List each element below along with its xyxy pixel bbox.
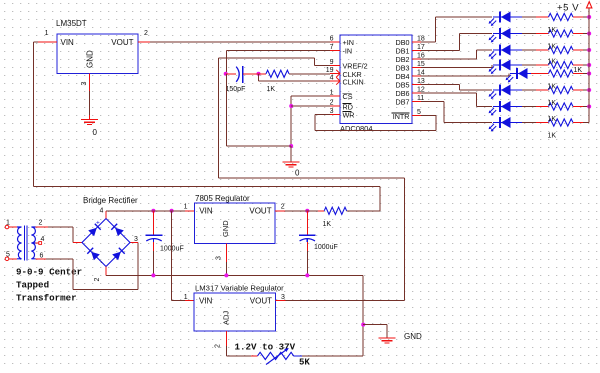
wire cap1 bottom lead [152, 242, 154, 251]
wire stub ADC left pin [330, 105, 340, 107]
LED D5 [506, 68, 531, 83]
center tap end square [39, 242, 42, 245]
wire to 1K [347, 210, 381, 212]
wire -IN down to cap node [226, 51, 228, 74]
wire to +5V rail [583, 16, 589, 18]
svg-text:3: 3 [134, 236, 138, 243]
junction +5V rail [587, 88, 591, 92]
svg-text:VOUT: VOUT [249, 206, 271, 215]
wire stub ADC right pin [412, 75, 421, 77]
svg-text:1000uF: 1000uF [314, 244, 338, 251]
resistor 1K (row 5) [549, 70, 574, 77]
svg-text:9-0-9 Center: 9-0-9 Center [16, 267, 82, 278]
wire VREF/2 riser [313, 58, 315, 65]
wire DB1 riser [458, 34, 460, 51]
svg-text:3: 3 [330, 108, 334, 115]
wire DB0 horizontal [421, 41, 435, 43]
wire stub ADC pin6 [330, 41, 340, 43]
wire CS [291, 95, 330, 97]
svg-text:3: 3 [216, 256, 223, 260]
svg-text:17: 17 [417, 44, 425, 51]
wire LED6 to resistor [522, 89, 536, 91]
svg-text:0: 0 [295, 169, 300, 178]
wire stub ADC right pin [412, 115, 421, 117]
svg-text:0: 0 [93, 128, 98, 137]
svg-text:1: 1 [184, 294, 188, 301]
svg-text:1: 1 [45, 30, 49, 37]
wire DB6 to LED [476, 106, 492, 108]
svg-text:1K: 1K [267, 86, 276, 93]
wire LM35 GND down [89, 91, 91, 115]
wire cap node down [226, 74, 228, 146]
svg-text:2: 2 [144, 30, 148, 37]
wire vertical +V net [33, 42, 35, 187]
svg-text:DB7: DB7 [396, 98, 410, 107]
transformer T? 9-0-9 primary terminal 1 circle [5, 225, 9, 229]
transformer left winding [17, 227, 22, 259]
LED D4 [489, 60, 522, 75]
junction 5V node [305, 209, 309, 213]
svg-text:6: 6 [330, 36, 334, 43]
svg-text:1K: 1K [548, 59, 557, 66]
wire 0V riser bottom [362, 325, 364, 356]
wire to +5V rail [583, 122, 589, 124]
svg-text:': ' [101, 261, 102, 268]
wire to +5V rail [583, 89, 589, 91]
svg-text:1K: 1K [323, 221, 332, 228]
wire stub resistor [536, 64, 549, 66]
wire stub LM317 VIN [185, 299, 194, 301]
wire cap2 bottom lead [306, 242, 308, 251]
wire stub bridge right [130, 242, 138, 244]
resistor 1K (row 4) [549, 61, 574, 68]
wire DB3 to LED [491, 64, 493, 66]
wire +5V rail [588, 9, 590, 123]
LED D7 [489, 101, 522, 116]
power symbol +5 V [587, 2, 592, 8]
svg-text:13: 13 [417, 78, 425, 85]
wire DB4 horizontal [421, 75, 509, 77]
wire ADJ down [225, 346, 227, 356]
wire 5K right lead [294, 355, 302, 357]
svg-text:1K: 1K [548, 84, 557, 91]
ground GND [379, 338, 396, 343]
wire LM35 VOUT to ADC +IN [150, 41, 330, 43]
svg-text:15: 15 [417, 61, 425, 68]
svg-text:1K: 1K [548, 100, 557, 107]
wire stub xfmr pin5 [9, 258, 17, 260]
resistor 1K (row 3) [549, 46, 574, 53]
wire stub ADC left pin [330, 50, 340, 52]
wire DB5 to LED [459, 89, 492, 91]
svg-text:3: 3 [81, 82, 88, 86]
wire DB5 horizontal [421, 84, 459, 86]
svg-text:Tapped: Tapped [16, 280, 49, 291]
junction GND node [361, 323, 365, 327]
wire stub ADC left pin [330, 80, 340, 82]
svg-text:4: 4 [41, 236, 45, 243]
wire 0V rail [106, 274, 363, 276]
wire +V long horizontal [34, 186, 381, 188]
wire LED1 to resistor [522, 16, 536, 18]
svg-text:7805 Regulator: 7805 Regulator [195, 194, 250, 203]
resistor 1K (row 2) [549, 30, 574, 37]
wire DB5 riser [458, 85, 460, 91]
junction +5V rail [587, 63, 591, 67]
wire stub resistor right [573, 64, 583, 66]
svg-text:1K: 1K [548, 116, 557, 123]
wire 0V riser top [362, 275, 364, 324]
wire stub 7805 VOUT [275, 210, 285, 212]
wire stub bridge top [105, 211, 107, 219]
wire stub ADC left pin [330, 113, 340, 115]
wire stub ADC left pin [330, 95, 340, 97]
regulator U? 7805 box [194, 203, 275, 244]
wire junction to 1K [252, 73, 266, 75]
temperature sensor U? LM35DT box [57, 34, 138, 74]
wire cap to junction [243, 73, 252, 75]
junction cap1 top [151, 209, 155, 213]
wire to LM317 [172, 299, 185, 301]
wire WR riser [314, 114, 316, 130]
wire 7805 GND to 0V [225, 262, 227, 275]
wire DB7 riser [443, 102, 445, 123]
wire to +5V rail [583, 106, 589, 108]
diode D? bridge top-left [88, 224, 101, 237]
wire DB4 to LED [508, 73, 510, 75]
svg-text:1K: 1K [548, 44, 557, 51]
wire LED3 to resistor [522, 49, 536, 51]
wire LED7 to resistor [522, 106, 536, 108]
junction ground net [289, 144, 293, 148]
resistor 1K (LM35 supply) [324, 207, 346, 214]
wire stub LM35 pin2 [138, 41, 150, 43]
LED D2 [489, 28, 522, 43]
wire stub xfmr pin2 [36, 226, 49, 228]
transformer core [24, 226, 26, 261]
capacitor 1000uF (filter) [146, 235, 163, 242]
wire AC2 riser to bridge right [137, 243, 139, 290]
svg-text:6: 6 [40, 253, 44, 260]
svg-text:11: 11 [417, 95, 424, 102]
wire LED8 to resistor [522, 122, 536, 124]
capacitor 150pF [236, 66, 243, 83]
resistor 1K (clock) [266, 70, 289, 77]
svg-text:16: 16 [417, 53, 425, 60]
junction clock cap node [224, 72, 228, 76]
wire stub resistor right [573, 16, 583, 18]
junction +5V rail [587, 48, 591, 52]
ADC U? ADC0804 box [340, 35, 412, 124]
wire stub resistor [536, 122, 549, 124]
junction +5V rail [587, 15, 591, 19]
wire stub resistor right [573, 122, 583, 124]
wire 1K to CLKR [289, 73, 330, 75]
wire stub xfmr pin1 [9, 226, 17, 228]
resistor 1K (row 1) [549, 13, 574, 20]
svg-text:2: 2 [39, 219, 43, 226]
wire VREF/2 [314, 65, 330, 67]
wire stub resistor right [573, 33, 583, 35]
wire DB2 horizontal [421, 58, 476, 60]
wire ADC -IN [227, 50, 330, 52]
svg-text:VIN: VIN [61, 38, 75, 47]
svg-text:18: 18 [417, 36, 425, 43]
wire xfmr pin6 [46, 258, 73, 260]
LED D1 [489, 12, 522, 27]
svg-text:GND: GND [404, 332, 422, 341]
potentiometer wiper arrow [266, 349, 288, 365]
svg-text:VIN: VIN [199, 206, 213, 215]
wire stub LM35 pin3 [89, 74, 91, 92]
wire stub ADC right pin [412, 50, 421, 52]
svg-text:+5 V: +5 V [557, 3, 579, 14]
wire DB0 to LED [435, 16, 492, 18]
wire cap2 to 0V rail [306, 251, 308, 275]
junction RD [289, 104, 293, 108]
wire stub resistor [536, 49, 549, 51]
junction +5V rail [587, 72, 591, 76]
wire LM35 VIN left [34, 41, 38, 43]
svg-text:CLKIN: CLKIN [343, 78, 364, 87]
wire 7805 VOUT [285, 210, 301, 212]
potentiometer 5K [258, 352, 294, 359]
wire DB4 riser [508, 74, 510, 77]
wire stub resistor [536, 33, 549, 35]
wire CLKIN riser [258, 74, 260, 81]
wire LED4 to resistor [522, 64, 536, 66]
svg-text:1: 1 [6, 219, 10, 226]
wire DB6 horizontal [421, 92, 476, 94]
wire stub ADC right pin [412, 101, 421, 103]
ground 0 (LM35) [81, 120, 98, 125]
diode D? bridge bottom-right [112, 248, 125, 260]
LED D8 [489, 117, 522, 132]
wire stub ADC left pin [330, 65, 340, 67]
wire stub 7805 VIN [185, 210, 194, 212]
wire stub xfmr pin6 [36, 258, 47, 260]
wire WR to INTR [315, 130, 436, 132]
wire stub resistor right [573, 73, 583, 75]
wire to +5V rail [583, 49, 589, 51]
wire to 150pF [226, 73, 236, 75]
bridge rectifier diamond [82, 219, 130, 267]
wire DC+ rail [146, 210, 166, 212]
wire to +5V rail [583, 64, 589, 66]
wire stub resistor right [573, 89, 583, 91]
resistor 1K (row 7) [549, 103, 574, 110]
wire DB2 to LED [476, 49, 492, 51]
wire ground horizontal [227, 145, 292, 147]
wire stub 7805 GND [225, 244, 227, 262]
wire DC+ rail to 7805 [166, 210, 185, 212]
LED D3 [489, 45, 522, 60]
wire stub resistor [531, 73, 549, 75]
wire DB2 riser [475, 50, 477, 59]
wire INTR riser [435, 116, 437, 131]
svg-text:2: 2 [94, 278, 101, 282]
svg-text:4: 4 [330, 75, 334, 82]
wire CLKIN [259, 80, 331, 82]
LED D6 [489, 85, 522, 100]
junction cap2 bottom [305, 273, 309, 277]
svg-text:ADC0804: ADC0804 [340, 124, 373, 133]
svg-text:1: 1 [184, 204, 188, 211]
svg-text:7: 7 [330, 44, 334, 51]
wire stub LM317 ADJ [225, 331, 227, 346]
wire DC+ to LM317 VIN [171, 211, 173, 300]
wire cap1 to 0V rail [152, 251, 154, 275]
svg-text:2: 2 [215, 344, 222, 348]
regulator U? LM317 box [194, 293, 276, 331]
wire VREF/2 horizontal [219, 57, 315, 59]
wire AC2 vertical [72, 259, 74, 290]
svg-text:GND: GND [221, 220, 230, 237]
svg-text:Bridge Rectifier: Bridge Rectifier [83, 196, 138, 205]
wire stub ADC left pin [330, 73, 340, 75]
svg-text:GND: GND [86, 50, 95, 68]
wire CS/RD vertical [290, 96, 292, 146]
wire VREF/2 long horizontal [219, 177, 405, 179]
svg-text:1K: 1K [548, 27, 557, 34]
svg-text:LM317 Variable Regulator: LM317 Variable Regulator [195, 284, 284, 293]
wire DC+ rail [106, 210, 146, 212]
wire DB7 to LED [444, 122, 492, 124]
wire stub 1K left [318, 210, 324, 212]
wire DB7 horizontal [421, 101, 444, 103]
capacitor 1000uF (output) [299, 235, 316, 242]
junction cap1 bottom [151, 273, 155, 277]
wire stub resistor right [573, 106, 583, 108]
wire stub LM35 pin1 [38, 41, 57, 43]
junction LM317 feed [170, 209, 174, 213]
wire stub resistor [536, 106, 549, 108]
wire RD [291, 105, 330, 107]
wire to ground symbol [290, 146, 292, 162]
svg-text:150pF: 150pF [226, 86, 246, 93]
junction 7805 GND [224, 273, 228, 277]
svg-text:5: 5 [6, 251, 10, 258]
ground 0 (ADC) [283, 162, 300, 167]
wire cap2 top lead [306, 211, 308, 235]
clock pin caret pin4 [336, 77, 340, 84]
wire to GND symbol [363, 324, 387, 326]
wire DB3 horizontal [421, 67, 492, 69]
wire stub resistor [536, 16, 549, 18]
wire to LM317 VOUT [286, 299, 405, 301]
svg-text:19: 19 [326, 67, 334, 74]
wire AC1 vertical [72, 227, 74, 243]
svg-text:1K: 1K [548, 133, 557, 140]
svg-text:ADJ: ADJ [222, 311, 231, 325]
wire VREF/2 vertical down [218, 58, 220, 178]
wire stub bridge bottom [105, 267, 107, 276]
resistor 1K (row 8) [549, 119, 574, 126]
junction +5V rail [587, 32, 591, 36]
resistor 1K (row 6) [549, 86, 574, 93]
junction +5V rail [587, 105, 591, 109]
wire AC2 horizontal [73, 288, 138, 290]
wire GND drop [386, 325, 388, 338]
wire +V riser [379, 187, 381, 211]
svg-text:9: 9 [330, 59, 334, 66]
wire stub ADC right pin [412, 92, 421, 94]
svg-text:5: 5 [417, 109, 421, 116]
wire to +5V rail [583, 73, 589, 75]
svg-text:LM35DT: LM35DT [56, 19, 87, 28]
wire stub ADC right pin [412, 67, 421, 69]
wire DB6 riser [475, 93, 477, 107]
svg-text:5K: 5K [299, 358, 310, 368]
wire stub bridge left [73, 242, 82, 244]
transformer right winding [31, 227, 35, 259]
svg-text:2: 2 [281, 204, 285, 211]
diode D? bridge bottom-left [87, 248, 100, 260]
wire stub 5K left [251, 355, 258, 357]
wire DB1 horizontal [421, 50, 459, 52]
wire stub resistor right [573, 49, 583, 51]
wire to ground [89, 115, 91, 120]
svg-text:4: 4 [100, 208, 104, 215]
wire stub LM317 VOUT [276, 299, 286, 301]
svg-text:1K: 1K [574, 67, 583, 74]
svg-text:14: 14 [417, 70, 425, 77]
wire 5K to 0V [302, 355, 363, 357]
wire stub ADC right pin [412, 84, 421, 86]
wire 5V node to 1K [301, 210, 318, 212]
transformer terminal 5 circle [5, 257, 9, 261]
wire INTR [421, 115, 436, 117]
diode D? bridge top-right [111, 224, 124, 237]
wire cap1 top lead [152, 211, 154, 235]
junction CLKIN node [257, 72, 261, 76]
svg-text:1: 1 [330, 90, 334, 97]
wire ADJ to 5K [226, 355, 251, 357]
svg-text:12: 12 [417, 87, 425, 94]
clock pin caret pin19 [336, 70, 340, 77]
wire xfmr pin2 to bridge [48, 226, 73, 228]
svg-text:VIN: VIN [199, 297, 213, 306]
wire stub ADC right pin [412, 41, 421, 43]
wire DB3 riser [491, 65, 493, 68]
svg-text:Transformer: Transformer [16, 293, 77, 304]
wire LED2 to resistor [522, 33, 536, 35]
wire stub resistor [536, 89, 549, 91]
wire DB1 to LED [459, 33, 492, 35]
wire to +5V rail [583, 33, 589, 35]
wire stub xfmr pin4 (center tap) [36, 242, 39, 244]
svg-text:VOUT: VOUT [111, 38, 133, 47]
svg-text:+: + [96, 220, 100, 227]
svg-text:2: 2 [330, 100, 334, 107]
wire WR [315, 113, 330, 115]
svg-text:VOUT: VOUT [250, 297, 272, 306]
wire DB0 riser [434, 17, 436, 42]
svg-text:-IN: -IN [343, 47, 353, 56]
wire VREF/2 to LM317 VOUT vertical [403, 178, 405, 300]
wire stub ADC right pin [412, 58, 421, 60]
